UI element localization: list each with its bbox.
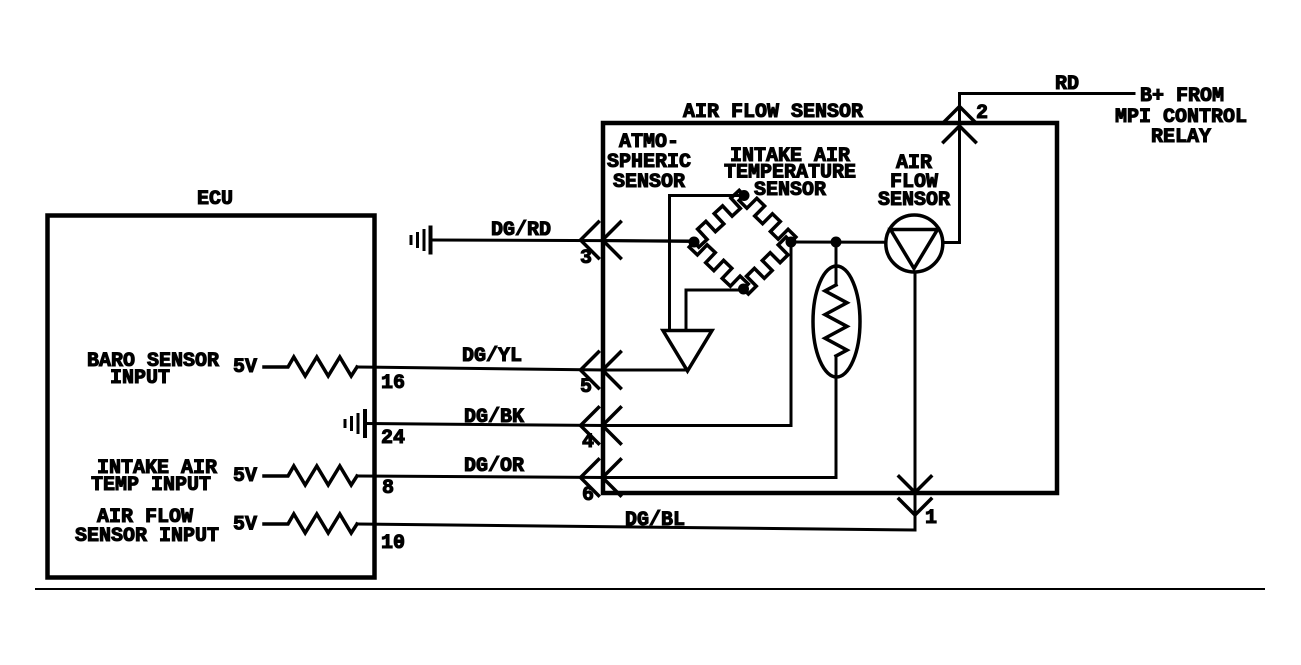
svg-text:24: 24 (381, 427, 405, 450)
temp sensor oval (intake air temperature sensor) (813, 266, 860, 377)
svg-text:AIR FLOW SENSOR: AIR FLOW SENSOR (683, 101, 863, 124)
svg-text:DG/BL: DG/BL (625, 509, 685, 532)
wire bridge top node to amplifier (670, 196, 745, 331)
node: temp sensor tap junction (831, 237, 842, 248)
svg-text:5V: 5V (233, 514, 257, 537)
resistor R3 (5V pull-up, pin 10) (264, 514, 357, 533)
bridge resistor RB2 (top-right side) (739, 196, 796, 243)
air flow sensor box (603, 123, 1057, 493)
svg-text:10: 10 (381, 532, 405, 555)
svg-text:8: 8 (382, 477, 394, 500)
node: bridge top junction (739, 190, 750, 201)
resistor R2 (5V pull-up, pin 8) (264, 466, 357, 485)
ECU box (48, 216, 375, 578)
svg-text:1: 1 (925, 507, 937, 530)
wire temp sensor bottom lead to pin 6 (835, 356, 838, 478)
node: bridge bottom junction (738, 284, 749, 295)
svg-text:DG/OR: DG/OR (464, 455, 524, 478)
svg-text:B+ FROM: B+ FROM (1140, 85, 1224, 108)
wire pin 3 to bridge left node (603, 241, 694, 242)
connector arrows pin 1 (pointing down) (899, 477, 931, 516)
air flow sensor circle Q1 (886, 215, 943, 272)
wire RD (pin 2 to B+) (960, 92, 1135, 95)
air flow sensor inner triangle (891, 230, 938, 269)
wire circle to pin 2 riser (943, 94, 960, 243)
wire DG/BL (pin 10 to pin 1) (357, 272, 915, 530)
connector arrows pin 6 (581, 460, 621, 496)
svg-text:TEMP INPUT: TEMP INPUT (91, 474, 211, 497)
wire temp sensor top lead (835, 242, 838, 285)
svg-text:INPUT: INPUT (110, 367, 170, 390)
bottom separator line (36, 588, 1264, 590)
svg-text:SENSOR: SENSOR (878, 189, 950, 212)
amplifier triangle U1 (atmospheric sensor) (663, 331, 712, 372)
connector arrows pin 2 (pointing up) (944, 107, 976, 143)
svg-text:4: 4 (582, 431, 594, 454)
wire DG/RD (pin 3 to ground) (431, 240, 694, 241)
wire pin 4 to bridge right node (603, 242, 791, 426)
wire bridge right node to air flow sensor circle (791, 241, 886, 244)
svg-text:SENSOR: SENSOR (754, 179, 826, 202)
svg-text:SENSOR: SENSOR (613, 171, 685, 194)
svg-text:6: 6 (582, 484, 594, 507)
svg-text:RELAY: RELAY (1151, 126, 1211, 149)
node: bridge right junction (786, 237, 797, 248)
svg-text:RD: RD (1055, 73, 1079, 96)
node: bridge left junction (689, 237, 700, 248)
wire bridge bottom node to amplifier (686, 290, 744, 331)
connector arrows pin 4 (581, 408, 621, 444)
wire DG/OR (pin 8 to pin 6) (357, 476, 603, 478)
resistor RT (inside temp sensor oval) (825, 285, 847, 356)
svg-text:ECU: ECU (197, 188, 233, 211)
svg-text:3: 3 (580, 247, 592, 270)
svg-text:5V: 5V (233, 356, 257, 379)
bridge resistor RB1 (top-left side) (694, 190, 744, 247)
connector arrows pin 5 (581, 352, 621, 388)
svg-text:5: 5 (580, 376, 592, 399)
ground G2 (pin 24 inside ECU) (345, 411, 365, 436)
wire DG/BK (pin 24 to pin 4) (365, 424, 603, 426)
svg-text:16: 16 (381, 372, 405, 395)
svg-text:DG/YL: DG/YL (462, 345, 522, 368)
svg-text:5V: 5V (233, 465, 257, 488)
bridge resistor RB4 (bottom-right side) (744, 237, 792, 294)
connector arrows pin 3 (581, 222, 621, 258)
svg-text:DG/BK: DG/BK (464, 406, 524, 429)
svg-text:SENSOR INPUT: SENSOR INPUT (75, 525, 219, 548)
svg-text:2: 2 (976, 102, 988, 125)
svg-text:DG/RD: DG/RD (491, 219, 551, 242)
ground G1 (left of DG/RD wire) (411, 228, 431, 253)
bridge resistor RB3 (bottom-left side) (689, 242, 748, 289)
resistor R1 (5V pull-up, pin 16) (264, 357, 357, 376)
wire pin 5 to amplifier tip (603, 369, 687, 372)
wire pin 6 horizontal (603, 476, 836, 479)
wire DG/YL (pin 16 to pin 5) (357, 367, 603, 370)
